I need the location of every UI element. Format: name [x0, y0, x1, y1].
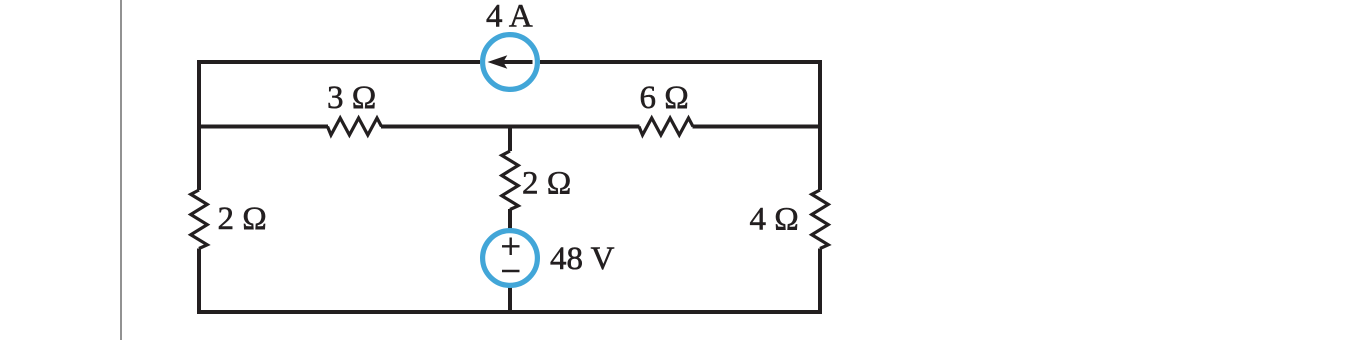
page margin rule: [120, 0, 122, 340]
wire middle horizontal left: [199, 125, 328, 129]
voltage source V1 circle: [483, 231, 538, 286]
wire middle branch upper: [508, 127, 512, 152]
resistor 4ohm right zigzag: [812, 190, 829, 249]
svg-text:3 Ω: 3 Ω: [327, 80, 376, 116]
resistor 3ohm zigzag: [328, 118, 382, 135]
svg-text:2 Ω: 2 Ω: [218, 201, 267, 237]
svg-text:4 A: 4 A: [486, 0, 533, 35]
wire bottom loop: [199, 249, 820, 313]
wire middle horizontal right: [693, 125, 821, 129]
current source arrow: [488, 55, 533, 69]
resistor 2ohm left zigzag: [191, 190, 208, 249]
voltage source plus sign: [502, 238, 520, 256]
svg-text:6 Ω: 6 Ω: [640, 80, 689, 116]
wire top-left segment: [199, 62, 480, 190]
current source I1 circle: [483, 35, 538, 90]
voltage source minus sign: [502, 270, 520, 272]
svg-text:4 Ω: 4 Ω: [750, 202, 799, 238]
resistor 6ohm zigzag: [639, 118, 693, 135]
wire top-right segment: [540, 62, 820, 190]
wire middle horizontal center: [381, 125, 640, 129]
resistor 2ohm middle zigzag: [502, 151, 519, 210]
svg-text:48 V: 48 V: [550, 241, 615, 277]
svg-text:2 Ω: 2 Ω: [522, 166, 571, 202]
wire middle branch lower: [508, 209, 512, 312]
